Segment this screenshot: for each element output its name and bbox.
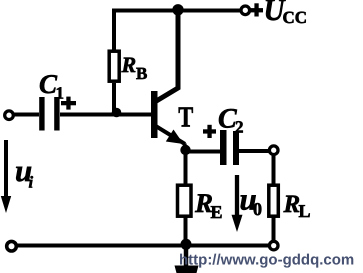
polarity + of C2 bbox=[203, 125, 216, 138]
label C2 bbox=[218, 104, 244, 137]
wire emitter to C2 bbox=[186, 150, 221, 154]
wire RL to bottom terminal bbox=[272, 217, 276, 242]
resistor RE bbox=[178, 185, 192, 216]
ground bbox=[175, 248, 199, 273]
label ui bbox=[15, 153, 34, 192]
capacitor C1 bbox=[39, 97, 59, 131]
polarity + of C1 bbox=[61, 97, 76, 110]
label RB bbox=[121, 52, 148, 83]
label RL bbox=[283, 191, 311, 221]
wire RE to bottom rail bbox=[184, 217, 188, 244]
input terminal bbox=[5, 111, 14, 120]
wire to RL bbox=[272, 155, 276, 186]
transistor T emitter bbox=[157, 127, 186, 151]
arrow ui bbox=[1, 140, 11, 213]
wire base to transistor bbox=[60, 113, 152, 117]
terminal input bottom bbox=[7, 241, 17, 251]
capacitor C2 bbox=[220, 130, 239, 165]
label u0 bbox=[240, 182, 263, 220]
resistor RB bbox=[109, 51, 119, 81]
node collector junction bbox=[172, 4, 183, 15]
terminal +UCC bbox=[241, 6, 250, 15]
node ground junction bbox=[181, 239, 192, 250]
wire base bbox=[13, 113, 39, 117]
label RE bbox=[194, 188, 223, 222]
transistor T base bar bbox=[151, 91, 158, 138]
wire top rail bbox=[112, 9, 242, 13]
wire RB bottom bbox=[112, 83, 116, 114]
transistor T collector bbox=[156, 10, 179, 102]
node base junction bbox=[112, 108, 122, 118]
wire bottom rail bbox=[14, 244, 270, 248]
terminal output bottom bbox=[269, 241, 278, 250]
node emitter bbox=[180, 145, 190, 155]
label C1 bbox=[39, 69, 64, 103]
terminal output top bbox=[269, 146, 278, 155]
wire emitter node to RE bbox=[184, 150, 188, 185]
wire RB top bbox=[112, 9, 116, 53]
arrow u0 bbox=[232, 175, 243, 232]
svg-text:http://www.go-gddq.com: http://www.go-gddq.com bbox=[179, 252, 354, 269]
wire C2 to output terminal bbox=[239, 149, 270, 153]
label +UCC bbox=[250, 0, 307, 27]
resistor RL bbox=[269, 185, 279, 216]
